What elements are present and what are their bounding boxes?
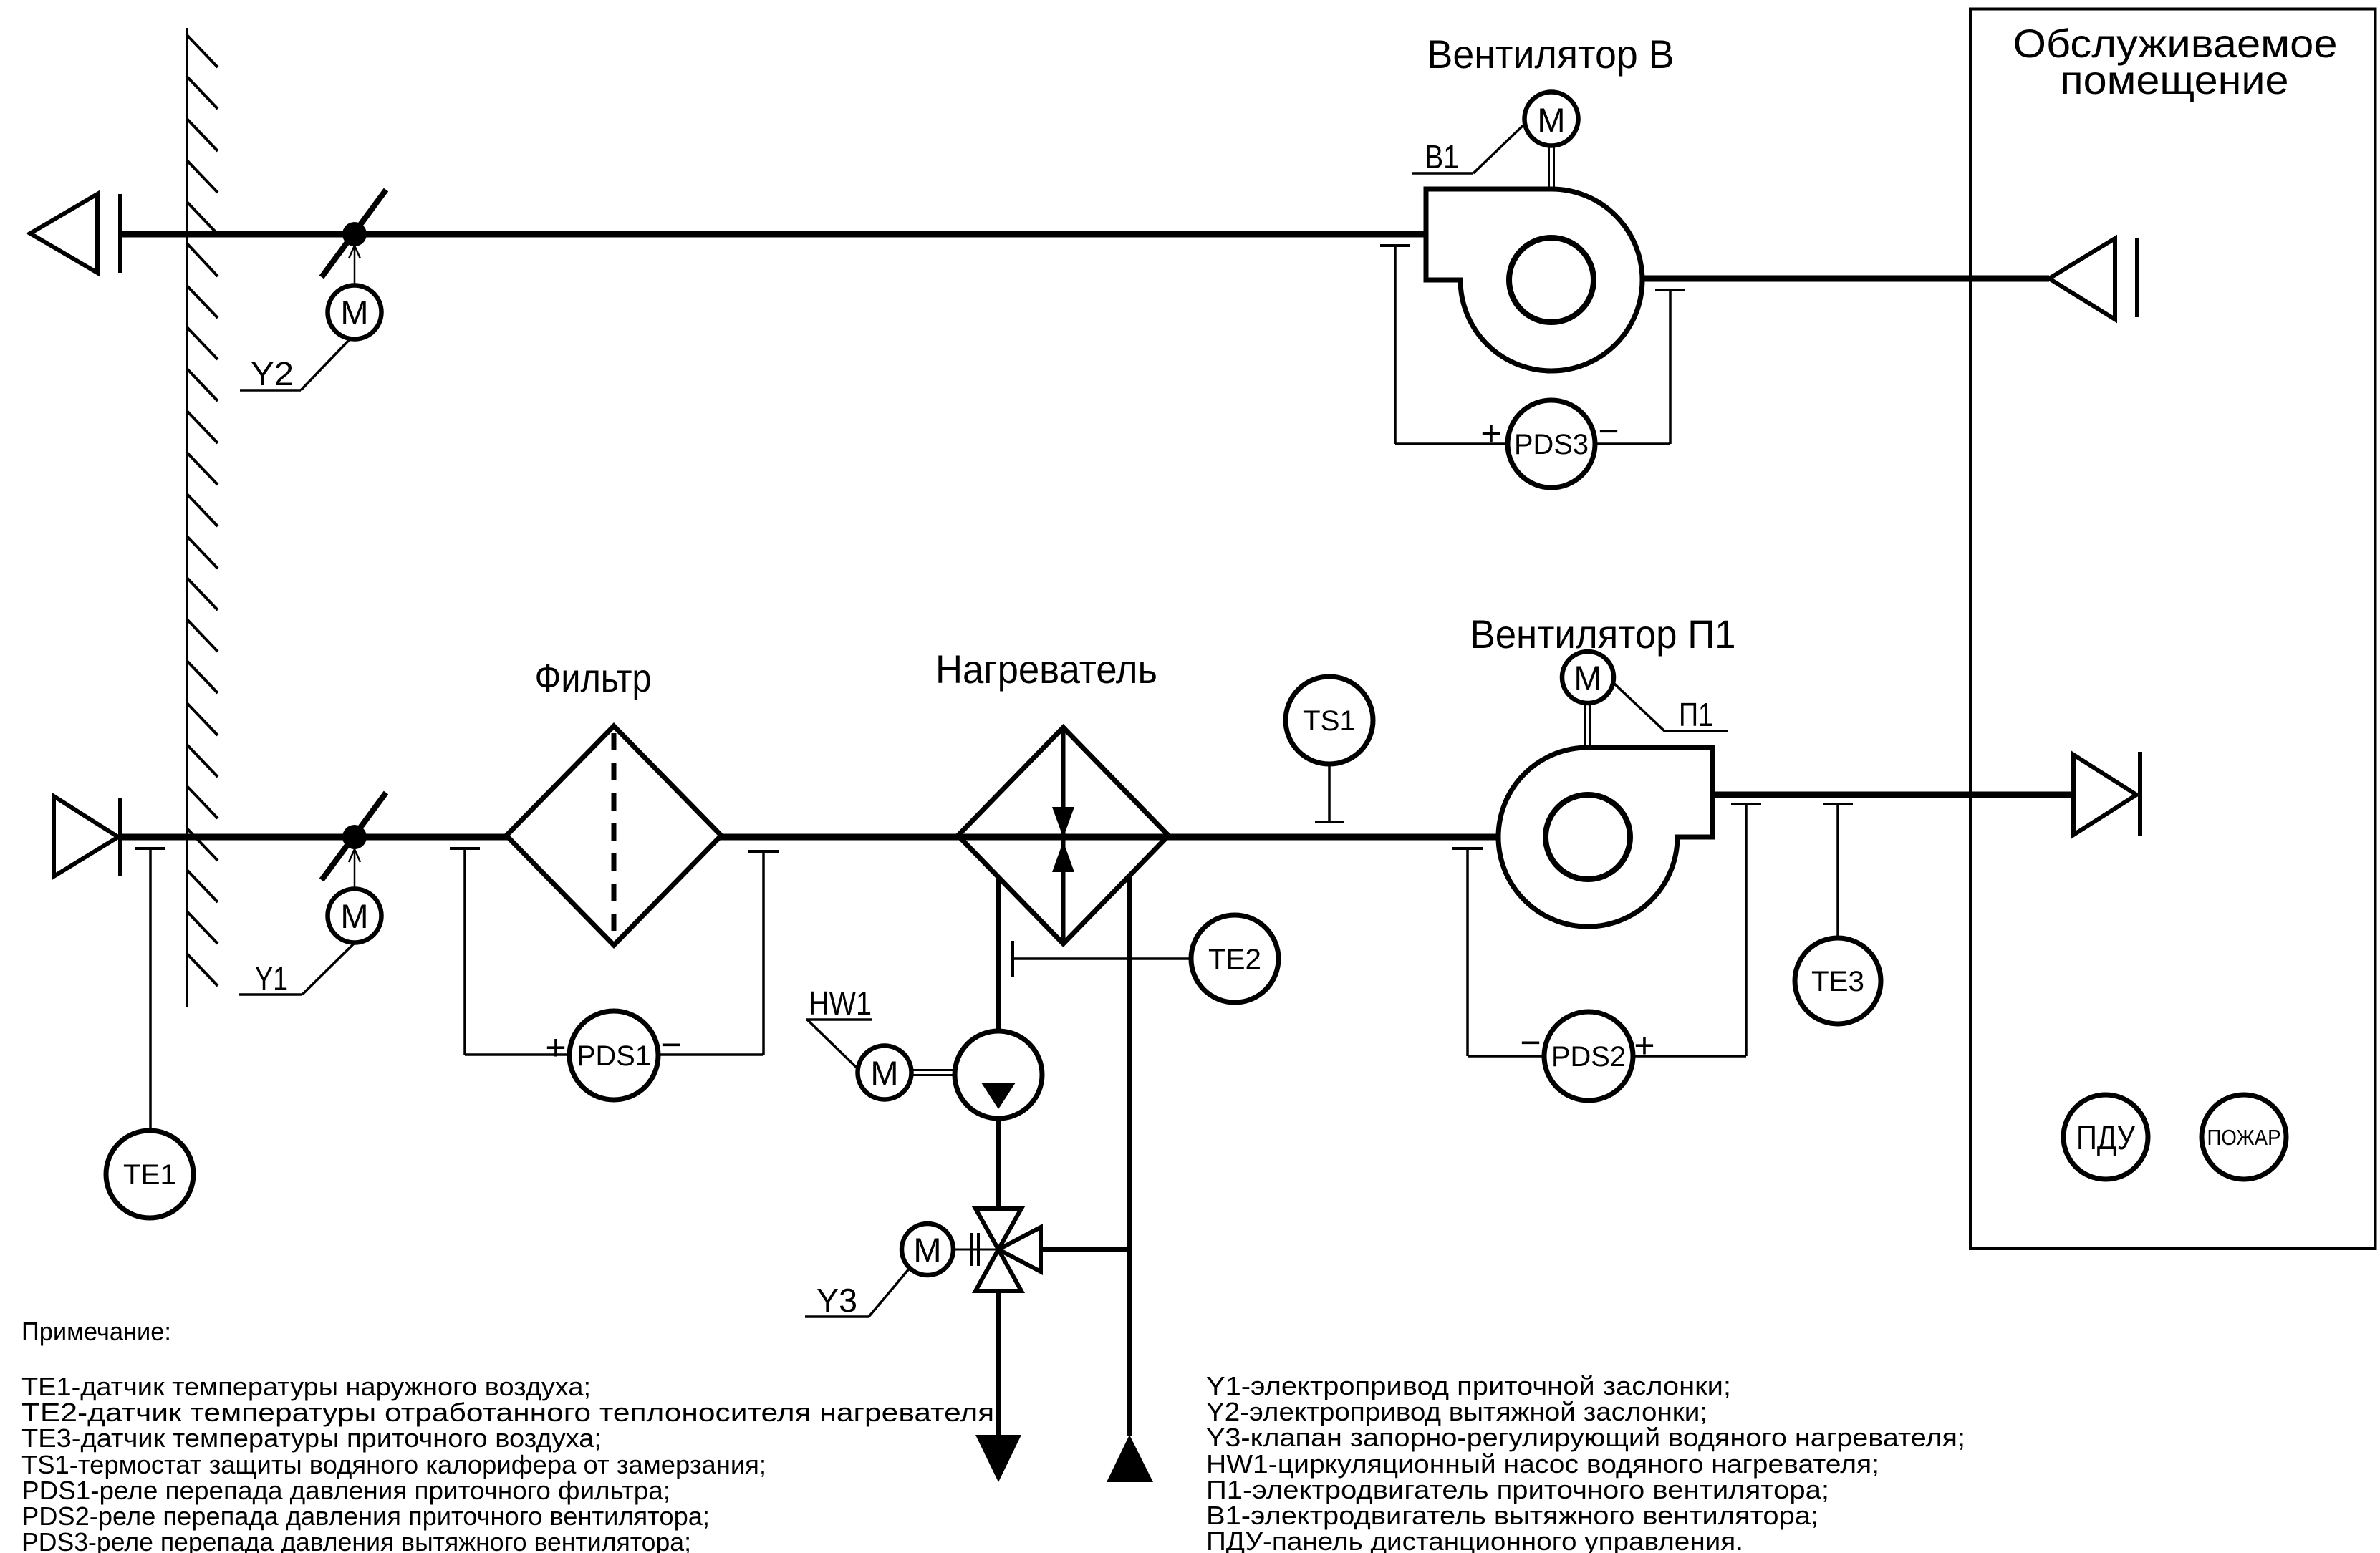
motor M of pump HW1 xyxy=(858,1046,912,1100)
svg-text:B1: B1 xyxy=(1425,138,1459,175)
PDS2 left pressure tap xyxy=(1452,848,1544,1056)
label Y3 xyxy=(805,1267,910,1319)
exhaust outdoor grille arrow xyxy=(30,194,97,273)
fire alarm ПОЖАР xyxy=(2202,1095,2286,1179)
drain arrow xyxy=(975,1435,1021,1482)
sensor TE2 xyxy=(1191,915,1278,1002)
label B1 xyxy=(1412,122,1526,175)
thermostat TS1 duct bar xyxy=(1315,821,1344,823)
wire fan B outlet duct xyxy=(1642,276,2049,282)
thermostat TS1 xyxy=(1286,677,1373,764)
room supply grille bar xyxy=(2138,752,2142,836)
pressure relay PDS1 xyxy=(569,1011,658,1100)
wall hatch 16 xyxy=(187,661,218,693)
motor shaft of fan П1 xyxy=(1586,702,1591,748)
filter diamond xyxy=(506,726,721,945)
PDS3 right pressure tap xyxy=(1595,290,1685,444)
svg-text:Y3: Y3 xyxy=(816,1282,857,1319)
svg-text:M: M xyxy=(340,294,368,332)
valve Y3 stem coupling xyxy=(972,1233,978,1266)
svg-text:M: M xyxy=(1574,659,1601,697)
heater lower arrow xyxy=(1052,841,1074,872)
svg-text:TE2: TE2 xyxy=(1208,944,1261,975)
room supply grille arrow xyxy=(2073,755,2136,835)
svg-text:PDS2: PDS2 xyxy=(1551,1041,1626,1073)
svg-text:TS1: TS1 xyxy=(1303,705,1356,737)
sensor TE1 tap xyxy=(135,848,165,1131)
wall hatch 7 xyxy=(187,286,218,318)
wall hatch 12 xyxy=(187,494,218,526)
svg-text:TE3-датчик температуры приточн: TE3-датчик температуры приточного воздух… xyxy=(21,1423,602,1453)
damper Y2 blade xyxy=(322,190,386,277)
svg-text:Фильтр: Фильтр xyxy=(535,655,652,700)
svg-text:−: − xyxy=(660,1025,681,1065)
motor M of fan П1 xyxy=(1562,652,1614,703)
svg-text:TS1-термостат защиты водяного: TS1-термостат защиты водяного калорифера… xyxy=(21,1450,766,1479)
wall hatch 22 xyxy=(187,911,218,944)
wall hatch 5 xyxy=(187,202,218,234)
svg-text:B1-электродвигатель вытяжного: B1-электродвигатель вытяжного вентилятор… xyxy=(1206,1501,1818,1530)
wall hatch 11 xyxy=(187,453,218,485)
motor shaft of fan B xyxy=(1549,145,1554,189)
PDS2 right pressure tap xyxy=(1633,804,1761,1056)
pipe valve bypass xyxy=(1041,1247,1129,1252)
svg-text:PDS3: PDS3 xyxy=(1514,429,1589,460)
svg-text:Y2: Y2 xyxy=(251,355,294,392)
wall hatch 14 xyxy=(187,578,218,610)
svg-text:−: − xyxy=(1520,1022,1541,1063)
svg-text:Y2-электропривод вытяжной засл: Y2-электропривод вытяжной заслонки; xyxy=(1206,1397,1707,1426)
notes left column xyxy=(21,1372,1003,1553)
label Y1 xyxy=(239,942,355,997)
pipe heater supply upper xyxy=(996,877,1001,1031)
damper Y1 blade xyxy=(322,793,386,880)
remote control panel ПДУ xyxy=(2063,1095,2148,1179)
motor M of fan B xyxy=(1525,92,1579,146)
sensor TE2 capillary wire xyxy=(1013,957,1191,960)
svg-text:П1: П1 xyxy=(1679,696,1713,733)
svg-text:TE1-датчик температуры наружно: TE1-датчик температуры наружного воздуха… xyxy=(21,1372,591,1401)
svg-text:TE3: TE3 xyxy=(1811,966,1864,997)
wall hatch 20 xyxy=(187,828,218,861)
wall hatch 23 xyxy=(187,954,218,986)
svg-text:ПДУ: ПДУ xyxy=(2076,1118,2136,1156)
fan B scroll body xyxy=(1426,189,1642,371)
svg-text:Вентилятор П1: Вентилятор П1 xyxy=(1470,611,1736,657)
notes right column xyxy=(1206,1371,1965,1553)
pressure relay PDS3 xyxy=(1508,400,1595,488)
wall hatch 9 xyxy=(187,369,218,401)
PDS1 right pressure tap xyxy=(658,851,779,1055)
svg-text:ПОЖАР: ПОЖАР xyxy=(2207,1125,2281,1150)
wall hatch 8 xyxy=(187,327,218,359)
motor M of damper Y2 xyxy=(328,286,382,339)
heater diamond xyxy=(958,727,1169,944)
wall hatch 18 xyxy=(187,745,218,777)
wall hatch 19 xyxy=(187,786,218,818)
exhaust outdoor grille bar xyxy=(118,194,122,273)
svg-text:TE2-датчик температуры отработ: TE2-датчик температуры отработанного теп… xyxy=(21,1398,1003,1427)
pipe heater return xyxy=(1127,876,1132,1436)
svg-text:PDS3-реле перепада давления вы: PDS3-реле перепада давления вытяжного ве… xyxy=(21,1527,691,1553)
svg-text:Y1: Y1 xyxy=(255,960,288,997)
svg-text:M: M xyxy=(913,1231,941,1269)
pipe pump to valve xyxy=(996,1118,1001,1210)
wire exhaust duct xyxy=(120,231,1426,238)
svg-text:−: − xyxy=(1598,411,1619,451)
PDS3 left pressure tap xyxy=(1380,246,1508,444)
damper Y2 actuator arrow xyxy=(349,246,360,286)
supply intake grille arrow xyxy=(54,796,118,876)
sensor TE3 tap xyxy=(1823,804,1853,938)
label Y2 xyxy=(240,339,350,392)
svg-text:M: M xyxy=(340,897,368,935)
svg-text:+: + xyxy=(1634,1025,1654,1065)
wire supply duct xyxy=(120,834,1498,841)
svg-text:Примечание:: Примечание: xyxy=(21,1317,171,1346)
svg-text:Вентилятор В: Вентилятор В xyxy=(1427,32,1675,77)
svg-text:PDS1: PDS1 xyxy=(577,1040,651,1072)
damper Y1 pivot node xyxy=(342,825,367,849)
motor M of valve Y3 xyxy=(902,1224,953,1275)
valve Y3 three-way body xyxy=(975,1209,1041,1291)
wire fan П1 outlet duct xyxy=(1712,792,2073,798)
svg-text:PDS1-реле перепада давления пр: PDS1-реле перепада давления приточного ф… xyxy=(21,1476,670,1505)
motor M of damper Y1 xyxy=(328,889,382,943)
svg-text:Y3-клапан запорно-регулирующий: Y3-клапан запорно-регулирующий водяного … xyxy=(1206,1423,1965,1452)
water supply arrow xyxy=(1107,1435,1153,1482)
sensor TE2 pocket bar xyxy=(1011,941,1014,977)
wall hatch 21 xyxy=(187,870,218,902)
room exhaust grille arrow xyxy=(2049,238,2115,319)
wall (outdoor boundary) xyxy=(187,28,218,1007)
filter media dashed line xyxy=(612,733,617,939)
svg-text:HW1-циркуляционный насос водян: HW1-циркуляционный насос водяного нагрев… xyxy=(1206,1449,1879,1479)
motor shaft of pump HW1 xyxy=(910,1070,955,1075)
wall hatch 10 xyxy=(187,411,218,443)
svg-text:помещение: помещение xyxy=(2061,57,2289,102)
wall hatch 3 xyxy=(187,119,218,151)
supply intake grille bar xyxy=(118,798,122,876)
svg-text:M: M xyxy=(1537,101,1565,139)
room exhaust grille bar xyxy=(2135,238,2139,317)
pump HW1 xyxy=(955,1031,1042,1118)
wall hatch 15 xyxy=(187,619,218,652)
svg-text:HW1: HW1 xyxy=(809,984,872,1022)
svg-text:+: + xyxy=(1480,413,1501,453)
pressure relay PDS2 xyxy=(1544,1012,1633,1100)
wire supply duct through heater xyxy=(958,834,1169,841)
svg-text:П1-электродвигатель приточного: П1-электродвигатель приточного вентилято… xyxy=(1206,1475,1829,1504)
thermostat TS1 stem xyxy=(1328,764,1331,822)
svg-text:+: + xyxy=(545,1027,566,1068)
fan П1 scroll body xyxy=(1498,748,1712,927)
svg-text:Нагреватель: Нагреватель xyxy=(935,647,1157,692)
damper Y1 actuator arrow xyxy=(349,849,360,889)
wall hatch 1 xyxy=(187,35,218,67)
svg-text:PDS2-реле перепада давления пр: PDS2-реле перепада давления приточного в… xyxy=(21,1501,710,1531)
valve Y3 motor link wire xyxy=(953,1249,998,1251)
svg-text:Y1-электропривод приточной зас: Y1-электропривод приточной заслонки; xyxy=(1206,1371,1731,1400)
label П1 xyxy=(1613,682,1728,733)
PDS1 left pressure tap xyxy=(450,848,569,1055)
heater coil axis line xyxy=(1061,727,1066,944)
damper Y2 pivot node xyxy=(342,222,367,246)
wall hatch 13 xyxy=(187,536,218,569)
sensor TE3 xyxy=(1795,938,1881,1024)
svg-text:ПДУ-панель дистанционного упра: ПДУ-панель дистанционного управления. xyxy=(1206,1527,1743,1553)
wall hatch 2 xyxy=(187,77,218,109)
fan B impeller inlet circle xyxy=(1509,238,1594,322)
svg-text:M: M xyxy=(870,1054,898,1092)
room box Обслуживаемое помещение xyxy=(1970,9,2376,1249)
wall hatch 4 xyxy=(187,160,218,193)
fan П1 impeller inlet circle xyxy=(1546,795,1630,879)
wall hatch 6 xyxy=(187,243,218,276)
label HW1 xyxy=(806,984,872,1069)
sensor TE1 xyxy=(106,1131,193,1218)
svg-text:TE1: TE1 xyxy=(123,1159,176,1191)
wall hatch 17 xyxy=(187,703,218,735)
pipe valve to drain xyxy=(996,1290,1001,1436)
heater upper arrow xyxy=(1052,807,1074,838)
